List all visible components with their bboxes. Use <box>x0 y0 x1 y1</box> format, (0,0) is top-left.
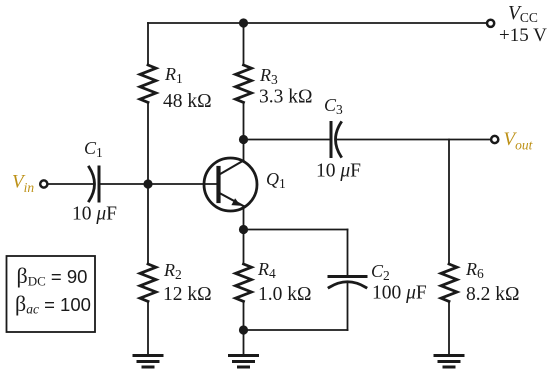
resistor R1 <box>140 65 156 102</box>
resistor R6 <box>441 264 457 301</box>
terminal Vout <box>491 136 498 143</box>
svg-text:10 μF: 10 μF <box>72 204 117 225</box>
wire emitter node to C2 top <box>244 229 348 231</box>
transistor Q1 <box>204 158 257 211</box>
svg-text:10 μF: 10 μF <box>316 161 361 182</box>
node dot bottom <box>239 325 248 334</box>
resistor R4 <box>236 264 252 301</box>
svg-text:12 kΩ: 12 kΩ <box>163 284 212 305</box>
wire emitter node to R4 <box>243 230 245 265</box>
svg-text:βDC = 90: βDC = 90 <box>17 263 88 289</box>
svg-text:1.0 kΩ: 1.0 kΩ <box>258 284 312 305</box>
wire top VCC rail <box>148 22 486 24</box>
wire R4 bottom to bottom node <box>243 301 245 330</box>
node dot collector <box>239 135 248 144</box>
ground (R2) <box>134 356 162 368</box>
svg-text:100 μF: 100 μF <box>372 283 427 304</box>
wire R1 bottom to base node to R2 top <box>147 102 149 264</box>
wire emitter down to emitter node <box>243 206 245 230</box>
wire R2 bottom to ground <box>147 301 149 354</box>
wire collector node to C3 <box>244 139 332 141</box>
resistor R3 <box>236 65 252 102</box>
terminal VCC <box>487 20 494 27</box>
svg-text:3.3 kΩ: 3.3 kΩ <box>259 87 313 108</box>
wire C2 column top <box>347 230 349 277</box>
wire C1 to base junction <box>99 183 148 185</box>
svg-text:+15 V: +15 V <box>499 25 547 46</box>
wire C2 column bottom <box>347 283 349 330</box>
node dot base <box>143 179 152 188</box>
wire R3 column top <box>243 23 245 65</box>
resistor R2 <box>140 264 156 301</box>
wire R6 bottom to ground <box>448 301 450 354</box>
wire bottom row <box>244 329 348 331</box>
capacitor C3 <box>331 123 341 157</box>
node dot top rail <box>239 18 248 27</box>
wire C3 to Vout <box>337 139 491 141</box>
terminal Vin <box>40 180 47 187</box>
wire bottom node to ground <box>243 330 245 354</box>
node dot emitter <box>239 225 248 234</box>
ground (R6) <box>435 356 463 368</box>
wire Vin to C1 <box>48 183 93 185</box>
wire R3 bottom to collector node <box>243 102 245 139</box>
capacitor C2 <box>329 277 366 288</box>
wire collector node down into transistor <box>243 140 245 162</box>
capacitor C1 <box>89 167 99 201</box>
wire R6 column <box>448 140 450 265</box>
ground (R4) <box>230 356 258 368</box>
beta parameter box <box>7 256 96 332</box>
wire base row from junction to transistor <box>148 183 217 185</box>
svg-text:8.2 kΩ: 8.2 kΩ <box>466 284 520 305</box>
wire R1 column top <box>147 23 149 65</box>
svg-text:48 kΩ: 48 kΩ <box>163 91 212 112</box>
